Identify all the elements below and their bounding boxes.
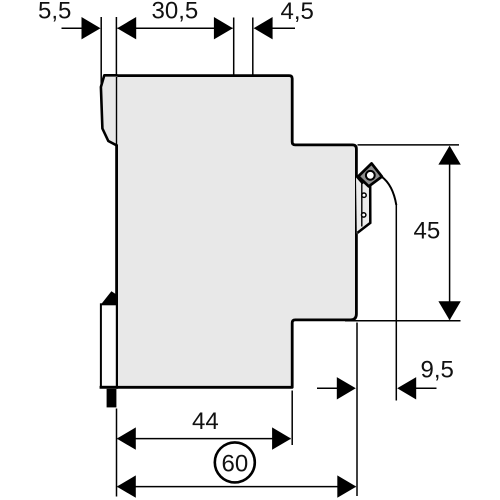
extension line x=116.4 top — [115, 17, 117, 75]
extension line x=292 bottom — [291, 391, 293, 446]
extension line x=252.8 — [252, 18, 254, 75]
circle around 60 — [215, 442, 255, 482]
toggle handle (top-left protrusion) — [101, 75, 118, 146]
dim 60 right arrow — [337, 475, 356, 497]
dim 45 line — [449, 147, 451, 320]
dim 5,5 tail — [62, 27, 84, 29]
rivet upper — [362, 193, 366, 197]
svg-text:5,5: 5,5 — [38, 0, 71, 25]
clip foot (black) — [107, 389, 117, 408]
dim 60 left arrow — [117, 475, 136, 497]
dim 9,5 right tail — [415, 387, 437, 389]
rivet lower — [362, 213, 366, 217]
svg-text:30,5: 30,5 — [152, 0, 199, 25]
lower front slider (white rectangle) — [101, 304, 117, 387]
svg-text:60: 60 — [222, 451, 249, 478]
dim 44 right arrow — [272, 427, 291, 449]
extension line x=357 bottom — [356, 323, 358, 497]
svg-text:9,5: 9,5 — [421, 357, 454, 384]
dim 4,5 arrow — [254, 17, 273, 39]
dim 4,5 tail — [272, 27, 295, 29]
hide thick face stroke behind toggle — [115, 77, 119, 145]
back profile / extension line x=396 — [395, 204, 397, 401]
svg-text:44: 44 — [192, 408, 219, 435]
dim 30,5 left arrow — [117, 17, 136, 39]
wire guide curve — [382, 177, 397, 206]
thin front face edge through toggle area — [116, 77, 118, 146]
45 bottom reference line — [345, 320, 461, 322]
dim 5,5 arrow — [82, 17, 101, 39]
extension line x=101 — [100, 17, 102, 88]
dim 45 down arrow — [438, 301, 460, 320]
DIN clip piece (right bulge) — [356, 177, 370, 234]
clip inner thin edge — [361, 183, 363, 226]
dim 60 line — [118, 486, 356, 488]
clip top diagonal — [356, 176, 363, 184]
slider spring wedge (black) — [102, 291, 117, 303]
dim 44 line — [118, 438, 291, 440]
45 top reference line — [358, 144, 460, 146]
svg-text:45: 45 — [414, 218, 441, 245]
dim 9,5 left tail — [317, 387, 338, 389]
bottom edge extension under slider — [100, 386, 118, 389]
dim 30,5 line — [118, 27, 233, 29]
dim 9,5 right arrow — [397, 377, 416, 399]
extension line x=233.7 — [233, 18, 235, 75]
dim 45 up arrow — [438, 146, 460, 165]
dim 30,5 right arrow — [214, 17, 233, 39]
svg-text:4,5: 4,5 — [281, 0, 314, 25]
breaker body outline — [117, 76, 357, 388]
extension line x=116.5 bottom — [116, 409, 118, 497]
clip outer edge — [357, 186, 370, 233]
terminal screw diamond — [358, 163, 382, 186]
screw hole — [366, 171, 375, 180]
dim 9,5 left arrow — [337, 377, 356, 399]
dim 44 left arrow — [117, 427, 136, 449]
